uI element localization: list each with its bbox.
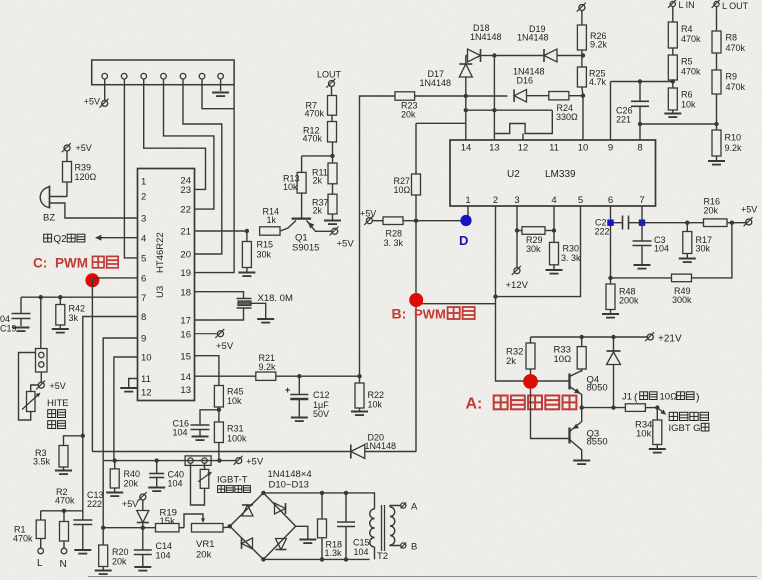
terminal +5V (R16) [741, 205, 757, 227]
svg-text:R30: R30 [563, 244, 580, 254]
svg-text:20k: 20k [112, 557, 127, 567]
svg-text:R40: R40 [124, 469, 141, 479]
svg-text:R10: R10 [725, 133, 742, 143]
svg-text:1N4148: 1N4148 [420, 78, 452, 88]
wire R27 top line [416, 122, 466, 124]
node C2 right (blue) [639, 220, 645, 226]
svg-text:3. 3k: 3. 3k [561, 253, 581, 263]
U3 pin 1 number [141, 177, 146, 188]
svg-text:2k: 2k [313, 206, 323, 216]
resistor R33 [554, 337, 587, 372]
wire C26 bottom to U2 pin8 [638, 122, 642, 140]
wire C26 bottom line [640, 123, 717, 125]
terminal +5V (aux line) [234, 456, 264, 468]
node B (red dot, PWM in) [409, 293, 423, 307]
label bridge diodes [268, 469, 312, 491]
svg-text:HITE: HITE [47, 398, 69, 409]
svg-text:14: 14 [461, 143, 472, 154]
bottom border line [88, 576, 757, 578]
svg-text:20k: 20k [196, 550, 212, 561]
potentiometer VR1 [184, 514, 223, 561]
U3 pin 12 number [141, 388, 152, 399]
svg-text:10k: 10k [681, 100, 696, 110]
svg-text:470k: 470k [681, 34, 701, 44]
svg-text:6: 6 [141, 274, 146, 285]
svg-text:C:: C: [33, 256, 47, 271]
diode D17 [420, 56, 473, 97]
terminal +5V (connector pin1) [84, 97, 109, 108]
resistor R22 [351, 376, 384, 415]
svg-text:+5V: +5V [360, 209, 376, 219]
svg-text:+5V: +5V [741, 205, 757, 215]
wire R23 to D17 node [415, 94, 468, 98]
wire R13 to divider node [302, 154, 335, 158]
connector CN1 (7-pin header) [92, 60, 234, 85]
crystal X18.0M [195, 292, 293, 323]
svg-text:7: 7 [639, 195, 644, 206]
svg-text:S9015: S9015 [292, 243, 319, 254]
connector J-IGBT-T [185, 456, 211, 466]
IC U2 LM339 body [450, 140, 656, 206]
terminal L [37, 548, 44, 569]
capacitor C3 [633, 235, 670, 269]
resistor R2 [55, 487, 75, 548]
wire bottom +5V bus [101, 526, 230, 530]
U2 pin 11 number [549, 143, 559, 154]
terminal L OUT [712, 0, 749, 11]
svg-text:R28: R28 [386, 229, 403, 239]
diode D9 (+5V feed) [122, 492, 149, 530]
connector CN1 pin 1 [102, 73, 108, 79]
U3 pin 10 number [141, 353, 152, 364]
wire mains divider [41, 509, 83, 513]
svg-text:6: 6 [608, 195, 613, 206]
resistor R1 [13, 511, 45, 548]
svg-text:R39: R39 [75, 163, 92, 173]
svg-text:10k: 10k [283, 182, 298, 192]
svg-text:3.5k: 3.5k [33, 457, 51, 467]
wire U2 pin7 down [641, 206, 643, 241]
U3 pin 21 number [180, 227, 191, 238]
resistor R7 [305, 87, 337, 119]
terminal +21V [645, 332, 682, 344]
svg-text:18: 18 [180, 287, 191, 298]
terminal (R26 top) [577, 3, 586, 12]
svg-text:C15: C15 [353, 538, 370, 548]
resistor R11 [312, 156, 337, 186]
capacitor C40 [148, 461, 184, 492]
svg-text:10: 10 [141, 353, 152, 364]
svg-text:L IN: L IN [679, 0, 695, 10]
svg-text:+21V: +21V [658, 334, 682, 345]
svg-text:470k: 470k [726, 82, 746, 92]
svg-text:1: 1 [465, 195, 470, 206]
diode D18 [466, 23, 502, 62]
resistor R20 [95, 528, 129, 574]
resistor R30 [546, 231, 582, 274]
svg-text:R15: R15 [257, 240, 274, 250]
wire D17 node to U2 pin14 [464, 96, 468, 140]
terminal B [401, 542, 418, 553]
svg-text:470k: 470k [303, 134, 323, 144]
IC U2 labels [507, 169, 576, 180]
svg-text:2: 2 [493, 195, 498, 206]
U2 pin 10 number [578, 143, 589, 154]
node R5/R6 [671, 79, 675, 83]
wire HITE loop [19, 353, 36, 421]
svg-text:9.2k: 9.2k [259, 362, 277, 372]
svg-text:04: 04 [0, 314, 10, 324]
wire U3 pin9 down [103, 338, 137, 528]
U3 pin 8 number [141, 312, 146, 323]
resistor R42 [52, 297, 85, 332]
svg-text:221: 221 [616, 115, 631, 125]
svg-text:B: B [411, 542, 417, 553]
wire +5V to R39 [66, 151, 68, 162]
svg-text:R9: R9 [726, 72, 738, 82]
svg-text:104: 104 [173, 428, 188, 438]
svg-text:300k: 300k [672, 295, 692, 305]
U2 pin 6 number [608, 195, 613, 206]
resistor R9 [712, 53, 746, 124]
terminal +5V (U3 pin16) [195, 329, 234, 352]
resistor J1 [622, 392, 700, 412]
resistor R28 [372, 217, 468, 248]
svg-text:50V: 50V [313, 409, 329, 419]
svg-text:330Ω: 330Ω [556, 112, 578, 122]
U3 pin 3 number [141, 214, 146, 225]
node R26/R25 [581, 53, 585, 57]
svg-text:100k: 100k [227, 434, 247, 444]
svg-text:3. 3k: 3. 3k [384, 238, 404, 248]
svg-text:20k: 20k [401, 110, 416, 120]
svg-text:D: D [459, 233, 468, 248]
terminal N [60, 548, 67, 570]
wire U3 pin10 down [114, 357, 138, 461]
label B: PWM input (red) [392, 306, 475, 322]
wire +21V rail [531, 335, 648, 339]
svg-text:C12: C12 [313, 390, 330, 400]
wire R23 feedback column [360, 96, 396, 376]
svg-text:12: 12 [518, 143, 529, 154]
svg-text:11: 11 [141, 374, 151, 385]
wire node A to Q3 base [531, 389, 570, 439]
svg-text:R22: R22 [368, 390, 385, 400]
svg-text:30k: 30k [526, 244, 541, 254]
U3 pin 9 number [141, 334, 146, 345]
svg-text:1.3k: 1.3k [325, 548, 343, 558]
svg-text:222: 222 [595, 227, 610, 237]
svg-text:4: 4 [551, 195, 556, 206]
wire node B column [415, 221, 417, 452]
resistor R37 [312, 184, 341, 224]
svg-text:17: 17 [180, 316, 191, 327]
label HITE sensor [47, 398, 69, 429]
svg-text:1N4148×4: 1N4148×4 [268, 469, 312, 480]
svg-text:15k: 15k [160, 516, 176, 527]
svg-text:1k: 1k [267, 215, 277, 225]
wire U2 pin2 to node A [496, 206, 570, 381]
terminal +5V (HITE) [36, 372, 66, 391]
wire connector pin6 jog [202, 79, 234, 109]
arrow to Q2 base (U3 pin4) [44, 234, 138, 245]
capacitor C19 [0, 297, 31, 333]
svg-text:10k: 10k [636, 429, 652, 440]
U2 pin 9 number [608, 143, 613, 154]
svg-text:R45: R45 [227, 387, 244, 397]
svg-text:R6: R6 [681, 90, 693, 100]
wire pin7 to HITE connector [40, 297, 42, 348]
svg-text:J1: J1 [622, 392, 632, 403]
resistor R17 [679, 223, 712, 262]
svg-text:R5: R5 [681, 57, 693, 67]
svg-text:U3: U3 [155, 286, 166, 298]
svg-text:C14: C14 [156, 541, 173, 551]
wire R49 net [611, 277, 672, 279]
resistor R5 [668, 48, 701, 82]
wire PWM out line [92, 451, 351, 453]
U3 pin 2 number [141, 192, 146, 203]
U3 pin 23 number [180, 185, 191, 196]
svg-text:4: 4 [141, 233, 146, 244]
U3 pin 19 number [180, 268, 191, 279]
svg-text:T2: T2 [377, 551, 388, 562]
wire D20 to node B column [364, 451, 416, 453]
thermistor IGBT-T [191, 463, 213, 505]
wire U2 pin13 column [492, 56, 496, 141]
resistor R4 [668, 7, 701, 48]
arrow to IGBT gate [657, 408, 709, 434]
terminal L IN [668, 0, 695, 10]
svg-text:13: 13 [180, 385, 191, 396]
svg-text:470k: 470k [681, 67, 701, 77]
node D (blue, U2 pin1) [459, 206, 472, 248]
svg-text:C19: C19 [0, 324, 17, 334]
terminal +5V (R28) [360, 209, 376, 225]
svg-text:10k: 10k [368, 400, 383, 410]
svg-text:5: 5 [578, 195, 583, 206]
wire U3 pin21 to R14 [195, 229, 250, 233]
svg-text:104: 104 [156, 551, 171, 561]
svg-text:120Ω: 120Ω [75, 172, 97, 182]
transformer T2 [370, 493, 401, 562]
node C (red dot, PWM out) [85, 273, 99, 287]
U3 pin 20 number [180, 250, 191, 261]
resistor R8 [712, 7, 746, 53]
U2 pin 13 number [489, 143, 500, 154]
terminal +5V (R39 top) [62, 143, 92, 153]
svg-text:10Ω: 10Ω [554, 354, 572, 365]
svg-text:R8: R8 [726, 33, 738, 43]
svg-text:R42: R42 [69, 304, 86, 314]
U3 pin 4 number [141, 233, 146, 244]
svg-text:+5V: +5V [50, 381, 66, 391]
connector CN1 pin 7 [218, 73, 224, 79]
svg-text:R4: R4 [681, 24, 693, 34]
U3 pin 24 number [180, 176, 191, 187]
svg-text:D10~D13: D10~D13 [269, 480, 309, 491]
svg-text:21: 21 [180, 227, 191, 238]
svg-text:470k: 470k [726, 43, 746, 53]
U3 pin 16 number [180, 329, 191, 340]
svg-text:8050: 8050 [587, 383, 608, 394]
node R9/R10 [714, 122, 718, 126]
svg-text:A: A [411, 502, 418, 513]
wire U3 pin8 down [81, 317, 138, 511]
svg-text:14: 14 [180, 372, 191, 383]
svg-text:IGBT G: IGBT G [669, 423, 701, 434]
U3 pin 6 number [141, 274, 146, 285]
capacitor C16 [173, 410, 219, 440]
resistor R15 [238, 231, 273, 276]
svg-text:10k: 10k [227, 396, 242, 406]
capacitor C26 [616, 79, 649, 124]
resistor R16 [704, 197, 746, 227]
capacitor C14 [134, 528, 172, 571]
wire D17 node line2 [466, 109, 553, 111]
wire node C down (PWM out line) [91, 280, 93, 452]
capacitor C2 [595, 216, 640, 237]
ground (connector pin7) [212, 79, 229, 96]
label C: PWM output (red) [33, 256, 118, 271]
capacitor C15 [337, 493, 370, 560]
svg-text:2k: 2k [313, 176, 323, 186]
label A: driver base (red) [466, 396, 577, 413]
U3 pin 15 number [180, 351, 191, 362]
ground (bridge) [296, 526, 317, 543]
svg-text:23: 23 [180, 185, 191, 196]
svg-text:9: 9 [608, 143, 613, 154]
resistor R49 [672, 223, 732, 305]
svg-text:10Ω: 10Ω [660, 392, 678, 403]
svg-text:12: 12 [141, 388, 152, 399]
svg-text:+5V: +5V [246, 457, 264, 468]
label IGBT-T sensor [217, 475, 250, 493]
connector J-HITE [36, 349, 48, 373]
U3 pin 7 number [141, 293, 146, 304]
U2 pin 5 number [578, 195, 583, 206]
svg-text:A:: A: [466, 396, 483, 413]
svg-text:X18. 0M: X18. 0M [258, 293, 293, 304]
resistor R6 [664, 82, 696, 118]
svg-text:1N4148: 1N4148 [517, 33, 549, 43]
svg-text:U2: U2 [507, 169, 520, 180]
svg-text:470k: 470k [13, 534, 33, 544]
wire connector pin4 to U3 pin22 [164, 79, 214, 209]
svg-text:L: L [37, 558, 43, 569]
transistor Q3 8550 [570, 408, 608, 465]
svg-text:PWM: PWM [55, 256, 88, 271]
wire bridge DC- line [263, 557, 369, 561]
resistor R45 [214, 386, 243, 423]
wire R24 node to U2 pin10 [581, 94, 585, 141]
svg-text:D16: D16 [517, 76, 534, 86]
buzzer BZ [40, 186, 55, 224]
wire connector pin3 to U3 pin23 [144, 79, 206, 189]
U3 pin 17 number [180, 316, 191, 327]
thermistor HITE [22, 385, 41, 412]
resistor R24 [549, 92, 583, 123]
svg-text:Q2: Q2 [54, 234, 67, 245]
resistor R29 [517, 227, 556, 254]
wire U2 pin4 down [553, 206, 555, 231]
svg-text:104: 104 [354, 547, 369, 557]
svg-text:8550: 8550 [587, 437, 608, 448]
svg-text:30k: 30k [257, 250, 272, 260]
wire connector pin5 to U3 pin20 [183, 79, 222, 254]
ground (U3 pin11) [120, 379, 137, 392]
svg-text:10: 10 [578, 143, 589, 154]
node A (red dot, driver base) [523, 374, 538, 389]
IC U3 label HT46R22 [155, 232, 166, 298]
svg-text:4.7k: 4.7k [589, 77, 607, 87]
wire U3 pin7 net [21, 295, 138, 299]
svg-text:7: 7 [141, 293, 146, 304]
transistor Q1 S9015 [280, 193, 332, 253]
resistor R26 [577, 11, 607, 56]
wire buzzer to U3 pin3 [50, 203, 138, 218]
svg-text:20k: 20k [704, 206, 719, 216]
svg-text:LOUT: LOUT [317, 70, 342, 80]
svg-text:L OUT: L OUT [722, 1, 749, 11]
U3 pin 18 number [180, 287, 191, 298]
svg-text:(: ( [634, 392, 638, 404]
resistor R21 [256, 353, 276, 380]
terminal LOUT [317, 70, 342, 88]
diode D19 [517, 24, 583, 62]
node C2 left (blue) [607, 220, 613, 226]
U3 pin 13 number [180, 385, 191, 396]
svg-text:11: 11 [549, 143, 559, 154]
wire node B to U2 pin2 column [421, 303, 496, 305]
connector CN1 pin 5 [180, 73, 186, 79]
U2 pin 12 number [518, 143, 529, 154]
wire C2 to R16 [645, 221, 704, 225]
svg-text:10Ω: 10Ω [394, 185, 411, 195]
svg-text:+5V: +5V [216, 341, 234, 352]
diode D16 [466, 67, 549, 102]
svg-text:2: 2 [141, 192, 146, 203]
resistor R48 [602, 284, 639, 318]
svg-text:1N4148: 1N4148 [365, 441, 397, 451]
svg-text:9: 9 [141, 334, 146, 345]
wire R39 to buzzer [50, 182, 68, 197]
svg-text:222: 222 [87, 499, 102, 509]
diode D20 [351, 433, 396, 459]
svg-text:PWM: PWM [414, 307, 446, 322]
connector CN1 pin 4 [161, 73, 167, 79]
svg-text:13: 13 [489, 143, 500, 154]
wire bridge DC+ line [263, 491, 369, 495]
wire key-pad net [494, 110, 552, 140]
wire +5V aux line [103, 458, 236, 462]
resistor R40 [106, 461, 140, 497]
svg-text:B:: B: [392, 306, 407, 322]
wire pin1 to +5V [104, 79, 106, 100]
resistor R13 [283, 156, 306, 193]
svg-text:+: + [285, 385, 290, 395]
wire U2 pin3 down [515, 206, 519, 233]
wire connector bar to U3 pin19 [195, 85, 235, 273]
U3 pin 22 number [180, 205, 191, 216]
svg-text:9.2k: 9.2k [590, 40, 608, 50]
resistor R34 [635, 408, 666, 453]
svg-text:470k: 470k [305, 109, 325, 119]
svg-text:5: 5 [141, 254, 146, 265]
svg-text:8: 8 [141, 312, 146, 323]
IC U3 HT46R22 body [138, 169, 195, 401]
resistor R14 [260, 207, 280, 236]
